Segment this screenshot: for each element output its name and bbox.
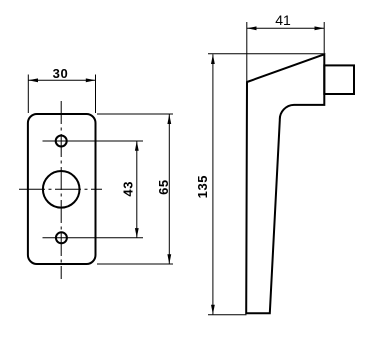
- dimension 65 label: [156, 179, 171, 195]
- dimension 30 line with arrows: [28, 78, 95, 82]
- large hole centerline: [19, 188, 102, 190]
- dimension 43 line with arrows: [135, 141, 139, 238]
- svg-text:43: 43: [121, 181, 136, 197]
- dimension 43 label: [121, 181, 136, 197]
- top hole centerline: [43, 140, 144, 142]
- svg-text:30: 30: [53, 66, 69, 81]
- dimension 135 extension lines: [208, 54, 324, 315]
- dimension 30 label: [53, 66, 69, 81]
- svg-text:41: 41: [275, 12, 291, 28]
- dimension 135 line with arrows: [211, 54, 215, 314]
- handle outline: [246, 54, 324, 313]
- dimension 135 label: [195, 175, 210, 199]
- bottom hole centerline: [43, 237, 144, 239]
- dimension 65 line with arrows: [167, 114, 171, 264]
- plate outline: [28, 114, 96, 264]
- dimension 65 extension lines: [97, 114, 173, 264]
- plate vertical centerline: [60, 101, 62, 279]
- dimension 30 extension lines: [28, 75, 95, 114]
- svg-text:135: 135: [195, 175, 210, 199]
- svg-text:65: 65: [156, 179, 171, 195]
- dimension 41 extension lines: [247, 22, 324, 81]
- top hole: [56, 136, 67, 147]
- dimension 41 label: [275, 12, 291, 28]
- bottom hole: [56, 232, 67, 243]
- large center hole: [43, 171, 80, 208]
- dimension 41 line with arrows: [247, 26, 324, 30]
- spindle square: [324, 65, 354, 94]
